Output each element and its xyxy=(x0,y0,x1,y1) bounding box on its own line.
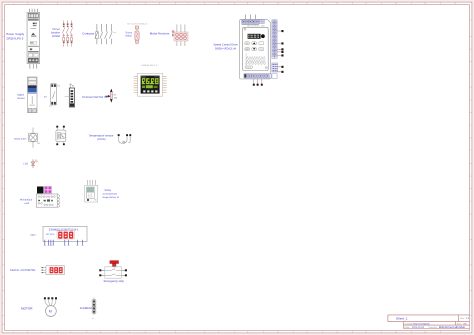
svg-text:2022-10-20: 2022-10-20 xyxy=(412,326,425,329)
power supply PS1 label xyxy=(6,32,24,41)
sensor module M1 body xyxy=(27,77,37,113)
svg-text:SET-DEG: SET-DEG xyxy=(46,233,55,236)
power supply PS1 bottom pins xyxy=(30,64,37,69)
svg-text:Temperature sensor: Temperature sensor xyxy=(89,134,114,138)
svg-text:Sensor: Sensor xyxy=(17,97,25,100)
svg-text:HI-interface: HI-interface xyxy=(20,199,33,202)
VFD U2 inner panel xyxy=(243,27,269,70)
svg-text:J: J xyxy=(470,251,471,254)
PID controller U1 xyxy=(134,73,167,96)
relay RL1 top pins xyxy=(87,180,95,185)
svg-text:DR2N-VFD-EL-M: DR2N-VFD-EL-M xyxy=(215,47,237,50)
VFD U2 vent grille xyxy=(246,53,266,66)
VFD U2 right bottom spare square xyxy=(272,74,277,79)
emergency stop S4 body xyxy=(105,267,122,278)
klemens X2 label xyxy=(80,307,93,310)
VFD U2 display xyxy=(248,34,265,39)
relay RL1 body xyxy=(85,185,98,202)
svg-text:1nput: 1nput xyxy=(30,233,36,236)
VFD U2 label xyxy=(213,43,238,50)
potentiometer label xyxy=(82,96,108,99)
svg-text:Relay: Relay xyxy=(126,35,133,38)
VFD U2 top pins xyxy=(246,15,256,20)
svg-text:Rev:: Rev: xyxy=(460,317,465,320)
svg-text:Date:: Date: xyxy=(405,326,411,329)
motor reverse label xyxy=(150,32,170,36)
thermal relay F2 small print above xyxy=(127,23,147,26)
svg-text:LED: LED xyxy=(23,163,28,166)
svg-text:E5CC: E5CC xyxy=(141,76,146,79)
fuse F1 xyxy=(44,84,61,106)
interface card A1 xyxy=(36,186,59,207)
circuit breaker CB1 label xyxy=(51,28,60,38)
VFD U2 bottom pins xyxy=(253,79,263,86)
sensor module M1 label xyxy=(17,93,25,99)
interface card A1 label xyxy=(20,199,33,206)
panel meter U3 bottom pins xyxy=(44,240,84,246)
svg-text:TESYS-LRD-THERM-0.6: TESYS-LRD-THERM-0.6 xyxy=(127,23,147,26)
svg-text:OMRON-E5CC-R: OMRON-E5CC-R xyxy=(142,64,158,67)
emergency stop S4 pins xyxy=(99,269,127,276)
VFD U2 front text line xyxy=(247,25,265,28)
svg-text:DR2N-LPS 5: DR2N-LPS 5 xyxy=(7,36,24,40)
svg-text:MOTOR: MOTOR xyxy=(21,307,33,311)
panel meter U3 side label xyxy=(30,233,36,236)
indicator lamp H1 xyxy=(29,128,41,148)
title block xyxy=(388,315,470,329)
voltmeter label xyxy=(10,269,36,272)
emergency stop S4 mushroom head xyxy=(110,260,119,267)
contactor K1 xyxy=(95,24,116,44)
potentiometer RV1 xyxy=(105,89,118,103)
VFD U2 right terminal column xyxy=(272,20,277,59)
thermal relay F2 xyxy=(135,26,139,44)
indicator lamp H1 label xyxy=(14,138,27,141)
svg-text:J: J xyxy=(3,251,4,254)
motor M2 xyxy=(46,306,57,317)
motor reverse switch S2 xyxy=(172,25,188,47)
LED D1 label xyxy=(23,163,28,166)
svg-text:card: card xyxy=(24,202,29,205)
svg-text:Speed Control Drive: Speed Control Drive xyxy=(213,43,238,46)
svg-text:Relay: Relay xyxy=(105,189,112,192)
svg-text:Power Supply: Power Supply xyxy=(6,32,24,36)
panel meter U3 body xyxy=(43,226,87,241)
motor M2 pins xyxy=(44,297,57,306)
contactor K1 label xyxy=(82,31,94,35)
relay RL1 label xyxy=(102,189,120,199)
svg-text:ALQ112(24vdc): ALQ112(24vdc) xyxy=(103,193,118,196)
VFD U2 buttons xyxy=(245,42,264,51)
PID controller U1 small print above xyxy=(142,64,158,67)
emergency stop S4 label xyxy=(104,279,125,283)
power supply PS1 body xyxy=(27,12,39,63)
svg-text:POTANSIYOMETRE 10K: POTANSIYOMETRE 10K xyxy=(82,96,108,99)
motor M2 label xyxy=(21,307,33,311)
svg-text:(Pt100): (Pt100) xyxy=(97,138,105,141)
svg-text:Sheet_1: Sheet_1 xyxy=(396,316,408,320)
temperature sensor label xyxy=(89,134,114,142)
svg-text:Emergency stop: Emergency stop xyxy=(104,279,125,283)
LED D1 xyxy=(31,159,37,168)
klemens X2 xyxy=(92,298,96,321)
svg-text:4008M: 4008M xyxy=(52,35,60,38)
svg-text:DIGITAL VOLTMETRE: DIGITAL VOLTMETRE xyxy=(10,269,36,272)
voltmeter DV1 xyxy=(42,266,65,275)
VFD U2 top terminal strip xyxy=(242,20,265,25)
VFD U2 right pins xyxy=(277,30,284,73)
temperature sensor TS1 probe xyxy=(118,134,132,143)
circuit breaker CB1 xyxy=(62,21,72,47)
terminal block X1 xyxy=(65,84,76,108)
dual pushbutton S3 xyxy=(56,126,66,146)
thermal relay F2 label xyxy=(125,31,133,37)
svg-text:Motor Reverse: Motor Reverse xyxy=(150,32,170,36)
svg-text:Contactor: Contactor xyxy=(82,31,94,35)
svg-text:Muhammed altundas: Muhammed altundas xyxy=(439,325,466,329)
VFD U2 bottom terminal strip xyxy=(244,74,271,78)
svg-text:x4: x4 xyxy=(92,317,94,320)
svg-text:Draw By:: Draw By: xyxy=(429,326,438,329)
VFD U2 nameplate pill xyxy=(245,66,253,69)
VFD U2 body outline xyxy=(240,19,271,79)
svg-text:KLEMENS: KLEMENS xyxy=(80,307,93,310)
VFD U2 right keypad connector block xyxy=(272,63,278,72)
power supply PS1 top pins xyxy=(29,9,37,13)
svg-text:M: M xyxy=(49,310,52,314)
svg-text:Songle 250vac-10: Songle 250vac-10 xyxy=(102,196,120,199)
svg-text:Mantar buton: Mantar buton xyxy=(14,138,27,141)
